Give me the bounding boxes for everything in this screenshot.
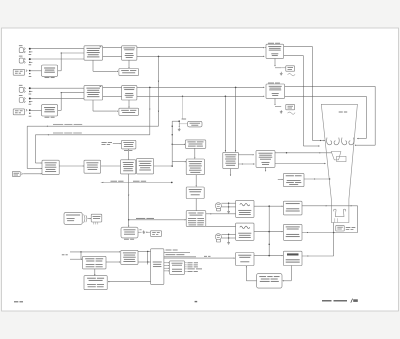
- wire trig line 1 down to trigger input: [26, 126, 28, 168]
- node CRT cathode junction: [333, 232, 335, 234]
- wire linear amp up to input line: [58, 70, 62, 72]
- wire L-7 branch down: [80, 252, 82, 259]
- CRT astigmatism electrode: [337, 156, 346, 161]
- label L-505: [204, 255, 207, 258]
- wire CH2 upper signal line to deflection amplifier: [137, 86, 263, 88]
- section divider line: [101, 181, 172, 183]
- input coupling and attenuator CH1 box: [84, 46, 103, 60]
- trap circuit box: [283, 251, 302, 265]
- wire horizontal amp to CRT gun upper: [275, 152, 331, 154]
- wire CH1 deflection out lower: [284, 55, 304, 57]
- wire horizontal display down to magnifier: [195, 175, 197, 186]
- voltage regulator tall box: [151, 249, 164, 285]
- wire magnifier down to table box: [195, 199, 197, 211]
- label sheet number 9100: [14, 301, 18, 302]
- wire magnifier trunk vertical: [171, 121, 173, 166]
- wire CRT cathode down: [333, 223, 335, 257]
- CH1 deflection amplifier box: [266, 44, 284, 58]
- voltage calibrator box: [121, 250, 138, 264]
- label heater output: [166, 253, 176, 256]
- label B+ output: [166, 249, 172, 252]
- label line frequency: [136, 217, 145, 220]
- wire CH2 upper plate feed vertical right: [374, 86, 376, 145]
- label sweep section left: [111, 180, 118, 183]
- connector J6 CH2 probe input: [13, 109, 24, 115]
- wire gate amp to unblanking: [254, 205, 282, 207]
- wire J6 to linear amplifier CH2: [30, 109, 42, 111]
- wire J2 stub: [31, 58, 84, 60]
- node gate trunk A: [268, 205, 270, 207]
- linear input amplifier CH1: [42, 65, 58, 76]
- wire CH2 lower plate feed vertical right: [365, 96, 367, 138]
- wire calibrator junction vertical: [147, 252, 149, 265]
- CRT heater filament: [334, 209, 346, 216]
- CH1 amp gain adjust cluster: [274, 58, 276, 65]
- CH2 deflection amplifier box: [266, 84, 285, 98]
- wire calibrator to regulator upper: [138, 251, 151, 253]
- connector jack: [19, 87, 23, 92]
- wire unblanking to CRT grid: [302, 205, 358, 207]
- wire rectifier to calibrator lower input: [106, 261, 120, 263]
- sweep trigger box right half: [137, 158, 154, 174]
- wire vertical amp CH2 down to TD2: [128, 100, 130, 107]
- wire holdoff label to holdoff box: [113, 143, 120, 145]
- wire trunk to horizontal display box: [172, 161, 185, 163]
- label CRT type: [339, 111, 343, 114]
- wire 60Hz line to time base table box: [129, 219, 185, 221]
- node sweep pickoff B: [235, 87, 237, 89]
- wire sweep generator bottom stub: [230, 169, 232, 175]
- wire trigger signal from CH2 line: [35, 134, 149, 136]
- time base table box: [186, 211, 206, 227]
- wire linear amp CH2 up to input line: [58, 109, 62, 111]
- label L-7: [62, 253, 65, 256]
- wire regulator to unregulated control: [108, 281, 150, 283]
- CRT bias resistor: [336, 225, 344, 231]
- wire trig line 2 down to trigger input: [34, 135, 36, 163]
- wire CH2 deflection out upper: [285, 85, 376, 87]
- wire L-7 line to calibrator: [70, 251, 120, 253]
- wire pot to magnifier box: [179, 123, 187, 125]
- label BLOCK DIAGRAM title: [322, 300, 332, 302]
- label holdoff adjust: [102, 141, 107, 144]
- wire grid network vertical: [357, 206, 359, 233]
- lamp legs: [93, 222, 95, 224]
- wire cathode to CRT circuit box: [302, 255, 334, 257]
- pickoff amplifier box: [236, 253, 254, 266]
- wire J3 to linear amplifier: [30, 70, 42, 72]
- wire vertical amp down to TD1: [128, 60, 130, 67]
- trigger generator box: [84, 160, 101, 173]
- trigger source switch box: [42, 160, 59, 174]
- wire into rectifier box: [70, 258, 81, 260]
- label bias resistor value: [346, 226, 351, 229]
- CRT envelope: [321, 104, 357, 222]
- node gate trunk B: [268, 231, 270, 233]
- ramp generator box: [283, 224, 302, 240]
- node horizontal pickoff on CH2 lower line: [182, 96, 183, 97]
- wire sweep pickoff B vertical: [235, 87, 237, 152]
- wire pickoff to trap box: [254, 255, 282, 257]
- connector J3 CH1 probe input: [13, 69, 24, 75]
- rectifier outputs box: [170, 261, 185, 274]
- wire rectifier down to unregulated control: [94, 269, 96, 275]
- wire sweep trigger output: [154, 165, 173, 167]
- wire CH1 upper signal line to deflection amplifier: [137, 47, 263, 49]
- wire graticule to lamp: [88, 218, 91, 220]
- wire cal oscillator to ramp box: [254, 231, 282, 233]
- wire calibrator to regulator lower: [138, 261, 151, 263]
- calibrator oscillator box with waveform: [236, 223, 254, 240]
- wire sweep trigger trunk down to power transformer: [128, 174, 130, 226]
- connector external trigger input: [12, 171, 20, 176]
- wire J1 to attenuator: [31, 48, 84, 50]
- unregulated control box: [84, 276, 107, 290]
- wire CH1 lower signal line to deflection amplifier: [137, 55, 263, 57]
- CRT deflection plate upper right pair: [342, 138, 347, 145]
- wire trunk to sweep length box: [172, 143, 184, 145]
- wire ext trigger to trigger box: [23, 173, 41, 175]
- line fuse box: [150, 231, 161, 237]
- node trigger pickoff CH1: [158, 56, 160, 58]
- CH2 amp gain adjust cluster: [274, 98, 276, 104]
- phase inverter box: [257, 274, 282, 289]
- wire attenuator CH2 bottom tap: [92, 100, 94, 111]
- wire J5 stub: [31, 97, 84, 99]
- wire CH1 deflection out upper: [284, 46, 313, 48]
- wire gate trunk vertical: [268, 206, 270, 255]
- wires pot1 to gate amp: [221, 202, 235, 204]
- tunnel diode trigger pickoff box TD2: [119, 108, 139, 115]
- wire trap box down to phase box: [290, 266, 292, 281]
- wire trigger source to trigger generator: [59, 165, 83, 167]
- intensity potentiometer knob 2: [215, 234, 221, 240]
- input coupling and attenuator CH2 box: [84, 86, 103, 100]
- wire regulator output heater: [164, 256, 196, 258]
- supply output lines with labels: [185, 262, 187, 264]
- node trunk junction: [171, 165, 173, 167]
- wire trigger generator to sweep trigger: [101, 165, 121, 167]
- wire CH2 lower signal line to deflection amplifier: [137, 95, 263, 97]
- connector jack: [19, 58, 23, 63]
- wire coupling to vertical amp upper: [103, 47, 122, 49]
- wire attenuator bottom tap: [92, 60, 94, 71]
- CRT focus electrode: [331, 152, 341, 160]
- wire sweep generator out upper to horizontal amplifier: [238, 154, 252, 156]
- unblanking gate box: [283, 201, 302, 215]
- gate amplifier box with waveform: [236, 200, 254, 217]
- wire table box to cal oscillator: [206, 225, 236, 227]
- horizontal amplifier box: [256, 151, 275, 168]
- graticule arcs: [84, 214, 85, 222]
- label page number: [195, 301, 198, 302]
- wire sweep length down to horizontal display: [194, 148, 196, 158]
- wire HV input stub: [278, 178, 282, 180]
- wire coupling to vertical amp lower: [103, 55, 122, 57]
- magnifier registration box: [188, 121, 202, 127]
- tunnel diode trigger pickoff box TD1: [119, 69, 139, 76]
- wire trigger pickoff CH1 vertical: [158, 56, 160, 126]
- vertical amplifier CH2 box: [122, 86, 137, 100]
- label TRIG SIG FROM CH 2: [53, 132, 63, 135]
- sweep trigger box left half: [121, 160, 136, 174]
- wire pickoff to magnifier pot: [182, 96, 184, 119]
- scale illumination lamp box: [91, 214, 102, 222]
- label sweep section right: [133, 180, 140, 183]
- wire horizontal amp to CRT gun lower: [275, 163, 325, 165]
- CRT deflection plate upper left pair: [327, 138, 332, 145]
- wire CH2 deflection out lower: [285, 95, 367, 97]
- wire coupling to vertical amp CH2 lower: [103, 95, 122, 97]
- wire CH1 upper plate feed vertical: [312, 47, 314, 141]
- node gate trunk C: [268, 255, 270, 257]
- sweep generator box: [223, 152, 239, 168]
- power transformer box: [121, 227, 138, 238]
- vertical amplifier CH1 box: [122, 46, 137, 60]
- power line ground cluster: [138, 231, 142, 233]
- node crossing CH1 plate line: [303, 86, 304, 87]
- connector jack: [19, 98, 23, 103]
- wire CH1 lower plate feed vertical: [302, 56, 304, 146]
- wire phase box back to pickoff: [246, 280, 256, 282]
- wire coupling to vertical amp CH2 upper: [103, 86, 122, 88]
- power rectifier box: [83, 256, 107, 269]
- CRT base ticks: [334, 218, 336, 222]
- sweep length box: [185, 140, 206, 148]
- connector jack: [19, 48, 23, 53]
- wire trunk corner to pot: [172, 120, 179, 122]
- holdoff box: [122, 140, 136, 149]
- wire horizontal amp bottom stub: [265, 167, 267, 170]
- wire L-505 line into pickoff: [164, 257, 235, 259]
- wire HV to CRT: [304, 178, 330, 180]
- wire sweep pickoff A vertical: [224, 96, 226, 152]
- wire grid network return: [302, 232, 358, 234]
- wire trigger pickoff CH2 vertical: [149, 87, 151, 134]
- wire J4 to attenuator CH2: [31, 87, 84, 89]
- wire trigger signal from CH1 line: [27, 125, 158, 127]
- node sweep pickoff A: [225, 96, 227, 98]
- wire horizontal display to gate amp: [206, 213, 236, 215]
- wire regulator output B+ upper: [164, 251, 190, 253]
- wires regulator to outputs box: [164, 262, 169, 264]
- graticule lamps box: [64, 213, 82, 225]
- label TRIG SIG FROM CH 1: [53, 123, 63, 126]
- wire sweep generator out lower: [238, 163, 254, 165]
- wire holdoff down to sweep trigger: [128, 149, 130, 160]
- linear input amplifier CH2: [42, 105, 58, 116]
- magnifier registration potentiometer: [178, 120, 180, 122]
- intensity potentiometer knob 1: [215, 203, 221, 209]
- wires pot2 to cal oscillator: [221, 233, 235, 235]
- high voltage supply box: [283, 173, 304, 186]
- horizontal display switch box: [186, 159, 204, 175]
- sweep magnifier box: [186, 187, 204, 199]
- node trigger pickoff CH2: [149, 87, 151, 89]
